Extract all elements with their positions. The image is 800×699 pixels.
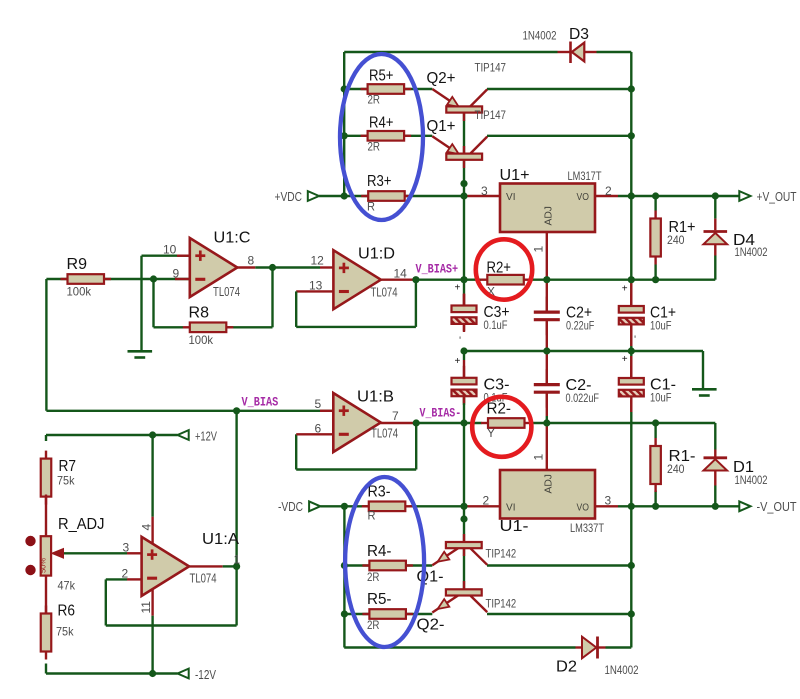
regulator U1+ LM317T bbox=[500, 167, 603, 232]
wire U1:A output column to V_BIAS bbox=[235, 411, 237, 626]
regulator U1- LM337T bbox=[500, 470, 605, 535]
svg-text:': ' bbox=[634, 334, 636, 346]
svg-text:TL074: TL074 bbox=[213, 285, 240, 299]
svg-text:VI: VI bbox=[506, 191, 516, 203]
wire +rail right vertical bbox=[630, 52, 632, 306]
resistor R6 bbox=[41, 603, 75, 660]
svg-text:TIP147: TIP147 bbox=[475, 108, 507, 122]
resistor R4- bbox=[362, 543, 413, 584]
svg-text:V_BIAS-: V_BIAS- bbox=[420, 406, 462, 421]
diode D3 1N4002 bbox=[523, 26, 597, 63]
svg-text:+: + bbox=[622, 354, 628, 365]
svg-text:2: 2 bbox=[483, 493, 490, 507]
svg-text:10: 10 bbox=[163, 243, 177, 257]
svg-text:0.022uF: 0.022uF bbox=[566, 391, 600, 405]
diode D4 1N4002 bbox=[704, 232, 768, 260]
svg-text:1N4002: 1N4002 bbox=[523, 29, 557, 43]
svg-text:R4-: R4- bbox=[367, 543, 392, 560]
resistor R1+ bbox=[650, 211, 695, 265]
svg-text:100k: 100k bbox=[67, 285, 92, 299]
svg-text:12: 12 bbox=[311, 254, 325, 268]
wire R1+ leads bbox=[654, 196, 656, 211]
svg-text:3: 3 bbox=[605, 493, 612, 507]
svg-text:+: + bbox=[622, 284, 628, 295]
svg-text:+: + bbox=[455, 283, 461, 294]
capacitor C1- bbox=[619, 354, 676, 405]
wire R8 row bbox=[154, 326, 184, 328]
op-amp U1:D bbox=[333, 246, 397, 310]
annotation red circle R2- bbox=[472, 397, 531, 457]
svg-text:U1+: U1+ bbox=[500, 167, 530, 184]
svg-text:6: 6 bbox=[315, 421, 322, 435]
svg-text:-V_OUT: -V_OUT bbox=[757, 499, 797, 514]
svg-text:1N4002: 1N4002 bbox=[735, 473, 768, 487]
wire pot wiper bbox=[64, 552, 127, 554]
svg-text:R: R bbox=[368, 509, 376, 523]
wire U1:A feedback bbox=[105, 579, 107, 625]
capacitor C3+ bbox=[452, 283, 510, 333]
resistor R8 bbox=[183, 305, 234, 348]
wire ADJ+ row bbox=[416, 279, 481, 281]
svg-text:R5+: R5+ bbox=[369, 68, 394, 85]
svg-text:Q1-: Q1- bbox=[417, 569, 444, 586]
wire V_BIAS row bbox=[46, 410, 333, 412]
svg-text:13: 13 bbox=[309, 278, 323, 292]
svg-text:11: 11 bbox=[139, 601, 153, 614]
svg-text:2: 2 bbox=[122, 566, 129, 580]
svg-text:2: 2 bbox=[605, 184, 612, 198]
wire R5+ row bbox=[344, 88, 432, 90]
transistor Q2- TIP142 bbox=[432, 589, 487, 612]
svg-text:TIP147: TIP147 bbox=[475, 61, 507, 75]
svg-text:Q2+: Q2+ bbox=[427, 70, 456, 87]
svg-text:Q1+: Q1+ bbox=[427, 118, 456, 135]
capacitor C2- bbox=[534, 369, 599, 408]
wire VO+ row bbox=[595, 195, 618, 197]
wire pin6 stub bbox=[296, 433, 333, 435]
svg-text:4: 4 bbox=[140, 524, 154, 531]
svg-text:R3+: R3+ bbox=[367, 173, 392, 190]
svg-text:TL074: TL074 bbox=[190, 572, 217, 586]
wire U1:A pin11 column bbox=[151, 589, 153, 616]
wire bottom rail bbox=[344, 646, 575, 648]
resistor R5+ bbox=[361, 68, 412, 107]
svg-text:3: 3 bbox=[481, 184, 488, 198]
wire ADJ+ column bbox=[546, 232, 548, 280]
svg-text:TL074: TL074 bbox=[371, 286, 398, 300]
svg-text:240: 240 bbox=[667, 233, 685, 247]
diode D1 1N4002 bbox=[704, 458, 768, 487]
resistor R2- bbox=[481, 401, 532, 441]
wire U1:D output stub bbox=[381, 279, 414, 281]
wire pin10 ground column bbox=[140, 256, 142, 351]
svg-text:': ' bbox=[459, 335, 461, 347]
resistor R4+ bbox=[361, 115, 412, 154]
svg-text:U1:C: U1:C bbox=[214, 230, 251, 247]
svg-text:0.1uF: 0.1uF bbox=[484, 318, 508, 332]
terminal +V_OUT bbox=[739, 189, 796, 204]
svg-text:+: + bbox=[455, 356, 461, 367]
svg-text:R3-: R3- bbox=[368, 484, 391, 501]
wire pin10 row bbox=[142, 254, 190, 256]
capacitor C1+ bbox=[619, 284, 676, 333]
svg-text:Q2-: Q2- bbox=[417, 617, 445, 634]
svg-text:+V_OUT: +V_OUT bbox=[757, 189, 797, 204]
wire U1:C feedback vertical bbox=[271, 268, 273, 328]
svg-text:100k: 100k bbox=[189, 333, 214, 347]
potentiometer R_ADJ bbox=[39, 495, 105, 614]
wire U1:B feedback bbox=[415, 423, 417, 470]
wire C2+ leads column bbox=[546, 280, 548, 311]
svg-text:U1:B: U1:B bbox=[357, 389, 394, 406]
svg-text:2R: 2R bbox=[367, 570, 380, 584]
ground left bbox=[128, 350, 153, 353]
wire R9 junction down to R8 bbox=[152, 279, 154, 327]
wire R1+ bottom lead bbox=[654, 265, 656, 281]
annotation red circle R2+ bbox=[476, 239, 532, 299]
svg-text:TIP142: TIP142 bbox=[486, 547, 517, 561]
svg-text:2R: 2R bbox=[368, 140, 381, 154]
svg-text:ADJ: ADJ bbox=[543, 474, 554, 493]
capacitor C2+ bbox=[534, 297, 595, 336]
op-amp U1:C bbox=[190, 230, 251, 300]
terminal +VDC bbox=[275, 189, 320, 204]
svg-text:75k: 75k bbox=[57, 474, 75, 488]
svg-text:VO: VO bbox=[577, 502, 590, 514]
resistor R7 bbox=[41, 451, 76, 505]
wire D1 column bbox=[714, 423, 716, 450]
svg-text:3: 3 bbox=[123, 540, 130, 554]
svg-text:8: 8 bbox=[248, 254, 255, 268]
svg-text:TIP142: TIP142 bbox=[486, 597, 517, 611]
wire +VDC to VI row bbox=[319, 195, 466, 197]
wire ground right column bbox=[702, 351, 704, 388]
terminal -V_OUT bbox=[739, 499, 796, 514]
annotation blue ellipse bottom bbox=[345, 477, 424, 647]
pot terminal bullet top bbox=[25, 536, 35, 546]
diode D2 1N4002 bbox=[556, 637, 639, 678]
svg-text:1: 1 bbox=[532, 454, 546, 461]
wire R7 top lead bbox=[45, 435, 47, 441]
svg-text:R2+: R2+ bbox=[487, 260, 512, 277]
wire U1:A output stub bbox=[189, 565, 223, 567]
svg-text:V_BIAS+: V_BIAS+ bbox=[416, 262, 459, 277]
wire pin13 stub bbox=[296, 290, 333, 292]
wire top rail bbox=[344, 51, 557, 53]
svg-text:R6: R6 bbox=[58, 603, 76, 620]
wire C3+ column leads bbox=[463, 294, 465, 306]
op-amp U1:B bbox=[333, 389, 398, 453]
svg-text:5: 5 bbox=[315, 397, 322, 411]
terminal -VDC bbox=[278, 499, 320, 514]
svg-text:U1:A: U1:A bbox=[202, 531, 239, 548]
svg-text:-VDC: -VDC bbox=[278, 499, 303, 514]
svg-text:R4+: R4+ bbox=[369, 115, 394, 132]
svg-text:LM337T: LM337T bbox=[570, 521, 605, 535]
svg-text:+12V: +12V bbox=[195, 428, 217, 443]
wire D4 column bbox=[714, 196, 716, 219]
svg-text:R8: R8 bbox=[189, 305, 210, 322]
wire U1:A pin4 column bbox=[151, 435, 153, 517]
wire transistor base column + bbox=[463, 112, 465, 153]
wire -12V row bbox=[46, 672, 178, 674]
ground right bbox=[692, 388, 717, 391]
wire Q1- collector row bbox=[487, 564, 631, 566]
svg-text:2R: 2R bbox=[367, 618, 380, 632]
svg-text:R9: R9 bbox=[67, 256, 88, 273]
svg-text:7: 7 bbox=[392, 409, 399, 423]
svg-text:R7: R7 bbox=[59, 458, 77, 475]
svg-text:R5-: R5- bbox=[367, 591, 392, 608]
svg-text:10uF: 10uF bbox=[650, 391, 672, 405]
svg-text:VI: VI bbox=[506, 502, 516, 514]
annotation blue ellipse top bbox=[340, 54, 423, 220]
svg-text:D3: D3 bbox=[569, 26, 589, 43]
svg-text:0.22uF: 0.22uF bbox=[566, 319, 594, 333]
wire R4- row bbox=[344, 564, 432, 566]
svg-text:LM317T: LM317T bbox=[568, 169, 603, 183]
svg-text:R_ADJ: R_ADJ bbox=[58, 516, 105, 533]
svg-text:-12V: -12V bbox=[195, 667, 216, 682]
svg-text:75k: 75k bbox=[56, 625, 74, 639]
capacitor C3- bbox=[452, 356, 510, 404]
wire R6 bottom lead bbox=[45, 664, 47, 674]
transistor Q1+ TIP147 bbox=[432, 136, 487, 160]
pot terminal bullet bottom bbox=[25, 565, 35, 575]
svg-text:V_BIAS: V_BIAS bbox=[242, 395, 279, 410]
svg-text:1N4002: 1N4002 bbox=[605, 663, 639, 677]
wire pin2 row U1:A bbox=[106, 578, 127, 580]
wire +12V row bbox=[46, 434, 178, 436]
svg-text:14: 14 bbox=[394, 266, 408, 280]
svg-text:9: 9 bbox=[173, 266, 180, 280]
svg-text:+VDC: +VDC bbox=[275, 189, 303, 204]
wire -VDC to VI- row bbox=[320, 505, 367, 507]
resistor R2+ bbox=[480, 260, 531, 299]
wire Q2+ collector row bbox=[487, 88, 631, 90]
svg-text:TL074: TL074 bbox=[371, 427, 398, 441]
wire mid 0V row bbox=[464, 350, 703, 352]
svg-text:D2: D2 bbox=[556, 659, 577, 676]
svg-text:R: R bbox=[367, 200, 375, 214]
wire V_BIAS- ADJ- row bbox=[416, 422, 481, 424]
wire R1- bottom lead bbox=[654, 491, 656, 507]
svg-text:ADJ: ADJ bbox=[543, 206, 554, 225]
resistor R5- bbox=[362, 591, 413, 632]
wire R4+ row bbox=[344, 135, 432, 137]
svg-text:1: 1 bbox=[532, 246, 546, 253]
svg-text:240: 240 bbox=[667, 462, 685, 476]
svg-text:VO: VO bbox=[577, 191, 590, 203]
svg-text:2R: 2R bbox=[368, 93, 381, 107]
resistor R3- bbox=[362, 484, 413, 523]
wire ADJ- column pin 1 bbox=[546, 423, 548, 470]
op-amp U1:A bbox=[142, 531, 240, 596]
svg-text:1N4002: 1N4002 bbox=[735, 245, 768, 259]
wire U1:D feedback bbox=[295, 291, 297, 327]
wire U1:C output row bbox=[237, 266, 255, 268]
wire R5- row bbox=[344, 613, 432, 615]
transistor Q1- TIP142 bbox=[432, 542, 487, 565]
resistor R1- bbox=[650, 438, 695, 492]
wire Q1+ collector row bbox=[487, 135, 631, 137]
svg-text:47k: 47k bbox=[58, 579, 76, 593]
wire R9 row to pin 9 bbox=[46, 278, 189, 280]
wire VO- row bbox=[595, 505, 618, 507]
svg-text:50%: 50% bbox=[39, 558, 48, 573]
transistor Q2+ TIP147 bbox=[432, 89, 487, 113]
wire left VDC column - bbox=[343, 506, 345, 647]
resistor R9 bbox=[61, 256, 112, 299]
svg-text:1: 1 bbox=[234, 552, 241, 566]
wire base column - bbox=[463, 397, 465, 542]
wire left column R9 to V_BIAS bbox=[45, 279, 47, 411]
wire U1:B output stub bbox=[381, 422, 415, 424]
wire Q2- collector row bbox=[487, 613, 631, 615]
wire left VDC column + bbox=[343, 52, 345, 196]
terminal +12V bbox=[178, 428, 218, 443]
wire C3- column leads bbox=[463, 351, 465, 360]
resistor R3+ bbox=[361, 173, 412, 214]
wire C2- leads column bbox=[546, 351, 548, 383]
svg-text:U1:D: U1:D bbox=[358, 246, 395, 263]
svg-text:U1-: U1- bbox=[500, 518, 529, 535]
svg-text:Y: Y bbox=[487, 426, 495, 440]
svg-text:10uF: 10uF bbox=[650, 319, 672, 333]
terminal -12V bbox=[178, 667, 217, 682]
